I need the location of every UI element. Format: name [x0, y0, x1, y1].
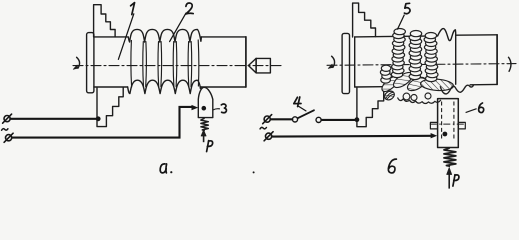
weld splatter sausage C: [405, 75, 427, 94]
splatter scallop chain: [398, 98, 441, 104]
junction dot on chuck right: [355, 117, 360, 122]
tool block right wing: [458, 122, 465, 128]
rotation arrow right: [328, 56, 334, 68]
switch 4 contact right: [316, 117, 321, 122]
wire: upper terminal to chuck: [10, 118, 97, 120]
weld splatter sausage A: [379, 74, 400, 94]
weld splatter dark blob: [383, 89, 396, 102]
wire: lower terminal to tool block: [272, 135, 433, 138]
chuck top jaw right: [353, 3, 376, 37]
worm thread profile 2: [128, 29, 202, 93]
weld bead column start: [380, 65, 391, 83]
contact dot in tool block: [443, 132, 448, 137]
arrowhead into electrode: [192, 105, 199, 110]
chuck faceplate right: [342, 33, 349, 93]
force arrow P right: [447, 167, 452, 188]
tailstock centre left: [248, 58, 270, 73]
terminal lower left: [4, 133, 13, 142]
label 6: [479, 103, 484, 113]
junction dot on chuck left: [96, 116, 101, 121]
centerline left: [73, 65, 281, 67]
tool block left wing: [430, 122, 437, 128]
speck dot: [253, 171, 255, 173]
leader line 4: [299, 106, 306, 111]
label b: [388, 159, 396, 173]
spring below electrode: [201, 118, 208, 130]
leader line 2: [170, 13, 186, 41]
contact dot in electrode: [202, 106, 207, 111]
leader line 6: [466, 109, 477, 113]
worn thread remnant top: [438, 29, 456, 85]
tool block flange line: [430, 123, 466, 125]
weld bead column 1: [391, 29, 405, 78]
wire: terminal to switch: [271, 118, 293, 120]
tailstock arc far right: [508, 57, 511, 72]
leader line 3: [213, 109, 220, 110]
worn thread remnant bottom scallops (over mess): [440, 85, 473, 94]
weld bead column 2: [409, 30, 422, 79]
force arrow P left: [201, 130, 206, 143]
label P right: [453, 175, 459, 186]
label 3: [221, 104, 226, 113]
spring below tool block: [444, 148, 456, 167]
workpiece cylinder right: [355, 35, 497, 87]
electrode holder 3: [198, 87, 213, 117]
leader line 1: [118, 14, 133, 60]
weld bead column 3: [424, 33, 438, 82]
rotation arrow left: [73, 57, 79, 69]
AC sign left: [2, 129, 8, 131]
switch 4 contact left: [292, 117, 297, 122]
weld splatter band: [420, 78, 454, 91]
wire: lower terminal to electrode: [12, 107, 193, 138]
label 1: [131, 3, 135, 15]
arrowhead into tool block: [431, 133, 438, 138]
label 5: [404, 3, 410, 13]
label P left: [207, 141, 213, 152]
tool block inner dashed right: [453, 102, 455, 140]
splatter small circles: [403, 93, 410, 100]
weld splatter sausage B: [391, 70, 415, 91]
label 4: [294, 97, 301, 107]
label 2: [186, 3, 193, 14]
terminal upper right: [263, 115, 272, 124]
label a: [160, 164, 172, 173]
leader line 5: [397, 15, 404, 30]
chuck faceplate left: [87, 33, 94, 93]
tool block 6 body: [438, 99, 459, 148]
workpiece cylinder left: [94, 37, 246, 87]
chuck top jaw left: [94, 5, 116, 37]
switch 4 blade: [298, 110, 314, 118]
terminal upper left: [3, 114, 12, 123]
chuck bottom jaw right: [357, 88, 384, 127]
AC sign right: [260, 127, 266, 129]
centerline right: [327, 64, 516, 66]
wire: switch to chuck: [321, 119, 355, 121]
terminal lower right: [264, 132, 273, 141]
tool block inner dashed left: [441, 102, 443, 140]
chuck bottom jaw left: [97, 87, 123, 126]
